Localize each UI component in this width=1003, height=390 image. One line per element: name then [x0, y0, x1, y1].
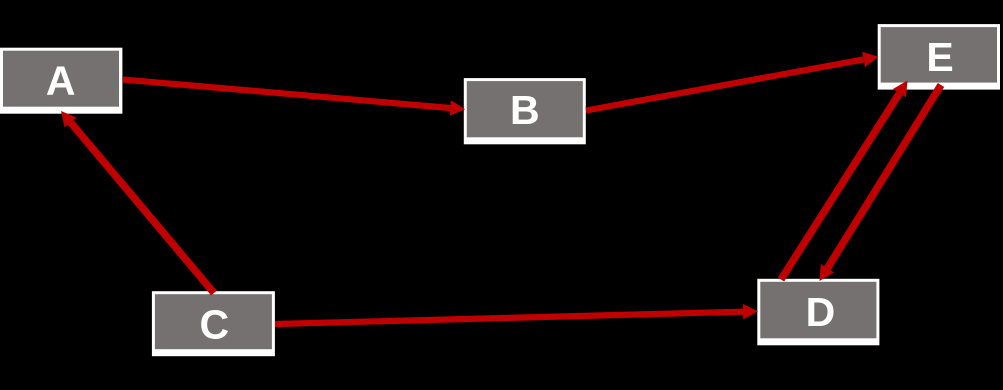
- svg-text:D: D: [806, 289, 836, 335]
- svg-text:B: B: [510, 87, 540, 133]
- wire edge D to E: [781, 81, 908, 280]
- node A: [0, 48, 122, 114]
- svg-text:C: C: [199, 302, 229, 348]
- wire edge B to E: [586, 52, 878, 111]
- wire edge C to D: [275, 304, 758, 324]
- node B: [464, 78, 586, 144]
- node C: [152, 291, 275, 356]
- wire edge E to D: [820, 85, 942, 281]
- wire edge A to B: [123, 80, 465, 116]
- node E: [878, 24, 1000, 90]
- wire edge C to A: [61, 111, 214, 293]
- node D: [757, 279, 879, 346]
- svg-text:E: E: [926, 34, 953, 80]
- svg-text:A: A: [46, 58, 76, 104]
